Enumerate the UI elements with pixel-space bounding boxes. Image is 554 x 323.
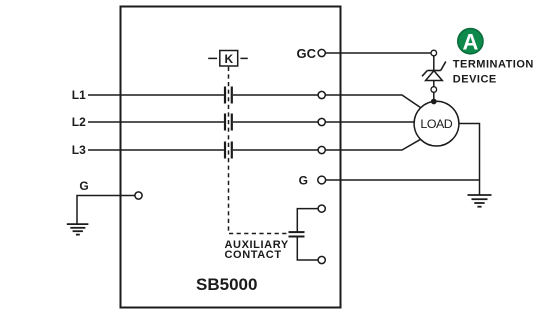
contact K (L1 pole) <box>225 87 232 104</box>
svg-text:L1: L1 <box>72 88 86 102</box>
terminal auxiliary top <box>318 205 325 212</box>
wire L2 terminal to load <box>325 121 414 123</box>
wire G (right) terminal to ground bus <box>325 179 479 181</box>
svg-text:GC: GC <box>297 46 317 61</box>
terminal G (left) <box>135 192 142 199</box>
wire G (left) to terminal <box>77 196 135 225</box>
wire L1 terminal to load (with bend) <box>325 95 421 108</box>
svg-text:A: A <box>462 29 478 54</box>
terminal L2 <box>318 118 325 125</box>
TVS diode (termination device) <box>422 50 446 101</box>
enclosure SB5000 outline <box>121 7 341 308</box>
junction node at LOAD input <box>431 99 437 105</box>
load LOAD <box>414 101 459 146</box>
wire GC terminal to termination device <box>325 52 431 54</box>
auxiliary contact <box>289 209 319 260</box>
callout A badge <box>458 29 483 55</box>
svg-text:K: K <box>224 52 233 66</box>
label TERMINATION DEVICE <box>453 59 534 86</box>
wire L2 left stub <box>88 121 224 123</box>
terminal L3 <box>318 146 325 153</box>
wire LOAD to ground bus <box>459 124 480 196</box>
terminal GC <box>318 49 325 56</box>
svg-text:CONTACT: CONTACT <box>225 249 282 261</box>
svg-text:DEVICE: DEVICE <box>453 74 497 86</box>
ground (right) <box>468 195 492 207</box>
wire L3 left stub <box>88 149 224 151</box>
mechanical linkage (dashed) from coil K to contacts and auxiliary contact <box>229 67 289 234</box>
svg-text:TERMINATION: TERMINATION <box>453 59 534 71</box>
wire L2 contact to terminal <box>233 121 318 123</box>
terminal L1 <box>318 91 325 98</box>
ground (left) <box>67 224 89 235</box>
svg-text:G: G <box>299 173 308 187</box>
wire L1 contact to terminal <box>233 94 318 96</box>
svg-text:SB5000: SB5000 <box>196 275 257 294</box>
wire L3 contact to terminal <box>233 149 318 151</box>
wire L1 left stub <box>88 94 224 96</box>
svg-text:G: G <box>79 179 88 193</box>
contact K (L2 pole) <box>225 114 232 131</box>
svg-text:L2: L2 <box>72 115 86 129</box>
terminal auxiliary bottom <box>318 256 325 263</box>
relay coil K <box>208 51 248 67</box>
wire L3 terminal to load (with bend) <box>325 139 421 150</box>
label AUXILIARY CONTACT <box>225 239 289 261</box>
terminal G (right) <box>318 176 326 184</box>
svg-text:L3: L3 <box>72 143 86 157</box>
contact K (L3 pole) <box>225 142 232 159</box>
svg-text:LOAD: LOAD <box>420 117 452 131</box>
